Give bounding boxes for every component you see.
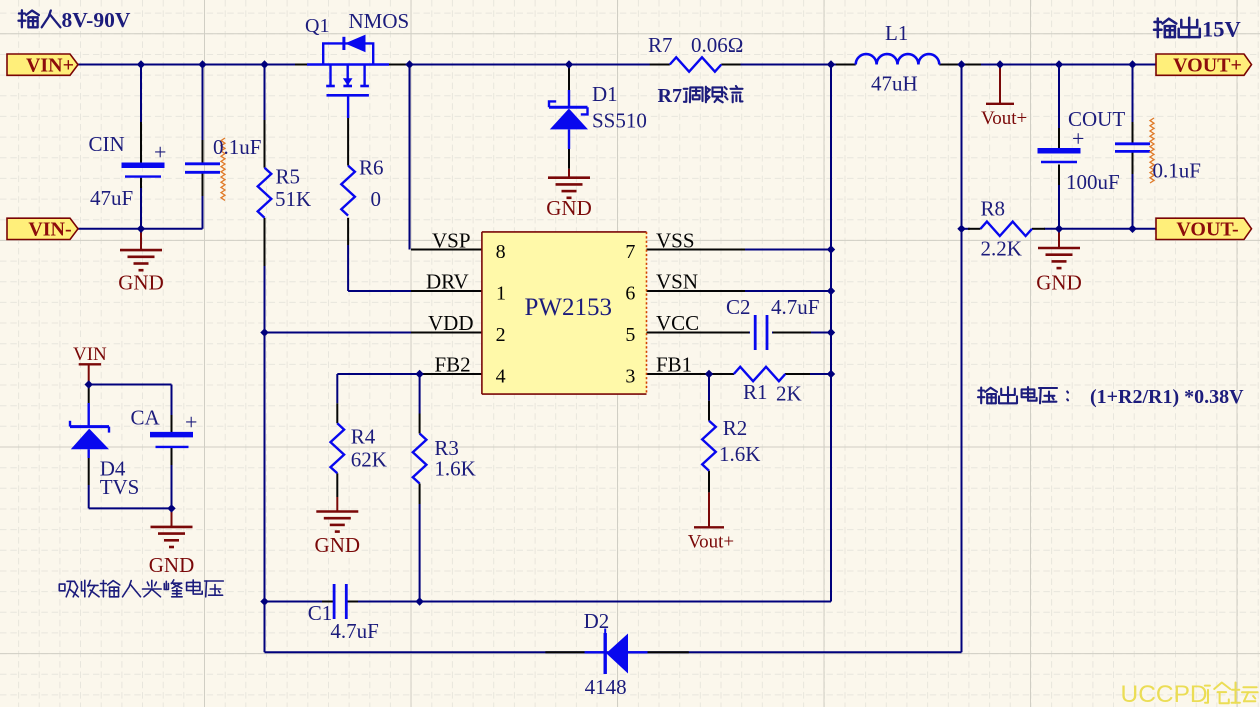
svg-text:CIN: CIN [89,132,125,156]
svg-text:VOUT-: VOUT- [1176,219,1238,241]
svg-text:VIN+: VIN+ [26,54,74,76]
svg-text:(1+R2/R1) *0.38V: (1+R2/R1) *0.38V [1090,386,1244,408]
svg-text:+: + [154,140,166,165]
svg-text:4.7uF: 4.7uF [330,619,378,643]
svg-text:VIN: VIN [73,344,107,365]
svg-text:47uF: 47uF [90,186,133,210]
svg-text:5: 5 [625,324,635,346]
svg-text:FB1: FB1 [656,353,692,377]
svg-text:TVS: TVS [100,475,140,499]
svg-text:NMOS: NMOS [349,9,410,33]
svg-text:R4: R4 [351,425,376,449]
svg-text:4: 4 [496,366,506,388]
svg-text:VSP: VSP [432,229,471,253]
svg-text:7: 7 [625,241,635,263]
svg-text:0.1uF: 0.1uF [1153,159,1201,183]
svg-text:R5: R5 [276,165,301,189]
svg-text:R6: R6 [359,156,384,180]
svg-text:VIN-: VIN- [28,219,71,241]
svg-text:VSS: VSS [656,229,695,253]
svg-text:+: + [1072,126,1084,151]
svg-text:2.2K: 2.2K [981,237,1022,261]
svg-text:VCC: VCC [656,311,699,335]
svg-text:0: 0 [371,187,382,211]
svg-text:D1: D1 [592,82,618,106]
svg-text:R8: R8 [981,197,1006,221]
svg-text:CA: CA [131,405,161,429]
svg-text:2: 2 [496,324,506,346]
svg-text:3: 3 [625,366,635,388]
svg-text:0.06Ω: 0.06Ω [691,33,743,57]
svg-text:VOUT+: VOUT+ [1173,54,1242,76]
svg-text:4148: 4148 [585,675,627,699]
svg-text:8: 8 [496,241,506,263]
svg-text:D2: D2 [584,609,610,633]
svg-text:R7: R7 [658,85,682,107]
svg-text:SS510: SS510 [592,109,647,133]
svg-text:1.6K: 1.6K [719,442,760,466]
svg-text:15V: 15V [1202,17,1241,42]
svg-text:1.6K: 1.6K [434,457,475,481]
svg-text:GND: GND [149,553,195,577]
svg-text:GND: GND [118,271,164,295]
svg-text:1: 1 [496,283,506,305]
svg-text:100uF: 100uF [1066,170,1120,194]
svg-text:GND: GND [546,196,592,220]
svg-text:Vout+: Vout+ [981,108,1027,129]
svg-text:Q1: Q1 [305,15,329,37]
svg-text:4.7uF: 4.7uF [771,295,819,319]
svg-text:PW2153: PW2153 [525,294,613,321]
svg-text:+: + [185,410,197,435]
svg-text:62K: 62K [351,447,387,471]
svg-text:C1: C1 [308,601,333,625]
svg-text:0.1uF: 0.1uF [213,135,261,159]
svg-text:DRV: DRV [426,270,469,294]
svg-text:R2: R2 [723,416,748,440]
svg-text:R1: R1 [743,380,768,404]
svg-text:R7: R7 [648,33,673,57]
svg-text:C2: C2 [726,295,751,319]
svg-text:8V-90V: 8V-90V [62,8,131,32]
svg-text:VSN: VSN [656,270,698,294]
svg-text:GND: GND [1036,271,1082,295]
svg-text:51K: 51K [275,187,311,211]
svg-text:Vout+: Vout+ [688,532,734,553]
svg-text:FB2: FB2 [435,353,471,377]
svg-text:47uH: 47uH [871,72,918,96]
svg-text:UCCPD: UCCPD [1121,681,1208,707]
svg-text:L1: L1 [885,21,908,45]
svg-text:2K: 2K [776,382,802,406]
svg-text:VDD: VDD [428,311,474,335]
svg-text:GND: GND [315,533,361,557]
svg-text:6: 6 [625,283,635,305]
